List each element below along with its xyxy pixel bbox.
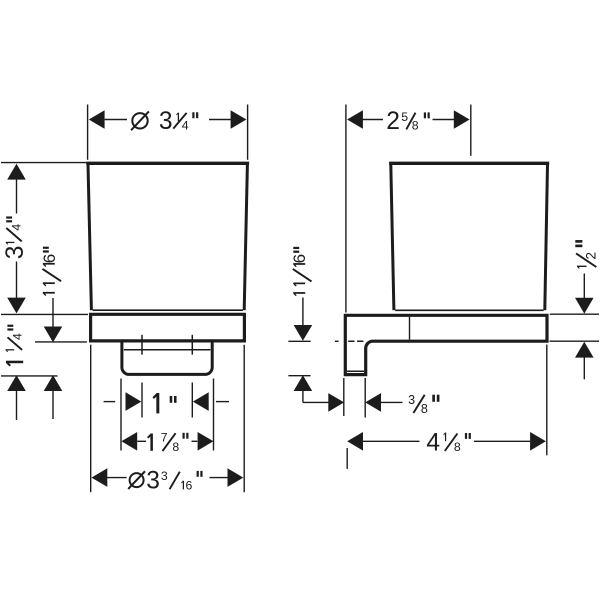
svg-text:8: 8 — [421, 402, 428, 416]
svg-text:5: 5 — [401, 110, 408, 124]
svg-text:4: 4 — [426, 430, 440, 457]
svg-text:6: 6 — [186, 478, 193, 492]
svg-text:7: 7 — [161, 430, 168, 444]
svg-text:6: 6 — [290, 254, 309, 263]
svg-text:3: 3 — [2, 246, 29, 260]
svg-text:3: 3 — [408, 393, 415, 407]
svg-text:4: 4 — [10, 333, 24, 340]
svg-text:8: 8 — [454, 440, 461, 454]
svg-text:6: 6 — [40, 254, 59, 263]
svg-text:2: 2 — [584, 252, 599, 260]
svg-text:4: 4 — [182, 118, 189, 132]
svg-text:8: 8 — [172, 440, 179, 454]
svg-text:3: 3 — [159, 108, 173, 135]
svg-text:8: 8 — [412, 118, 419, 132]
svg-text:4: 4 — [10, 224, 24, 231]
svg-text:3: 3 — [146, 468, 160, 495]
svg-text:2: 2 — [386, 108, 400, 135]
svg-text:3: 3 — [161, 469, 168, 483]
